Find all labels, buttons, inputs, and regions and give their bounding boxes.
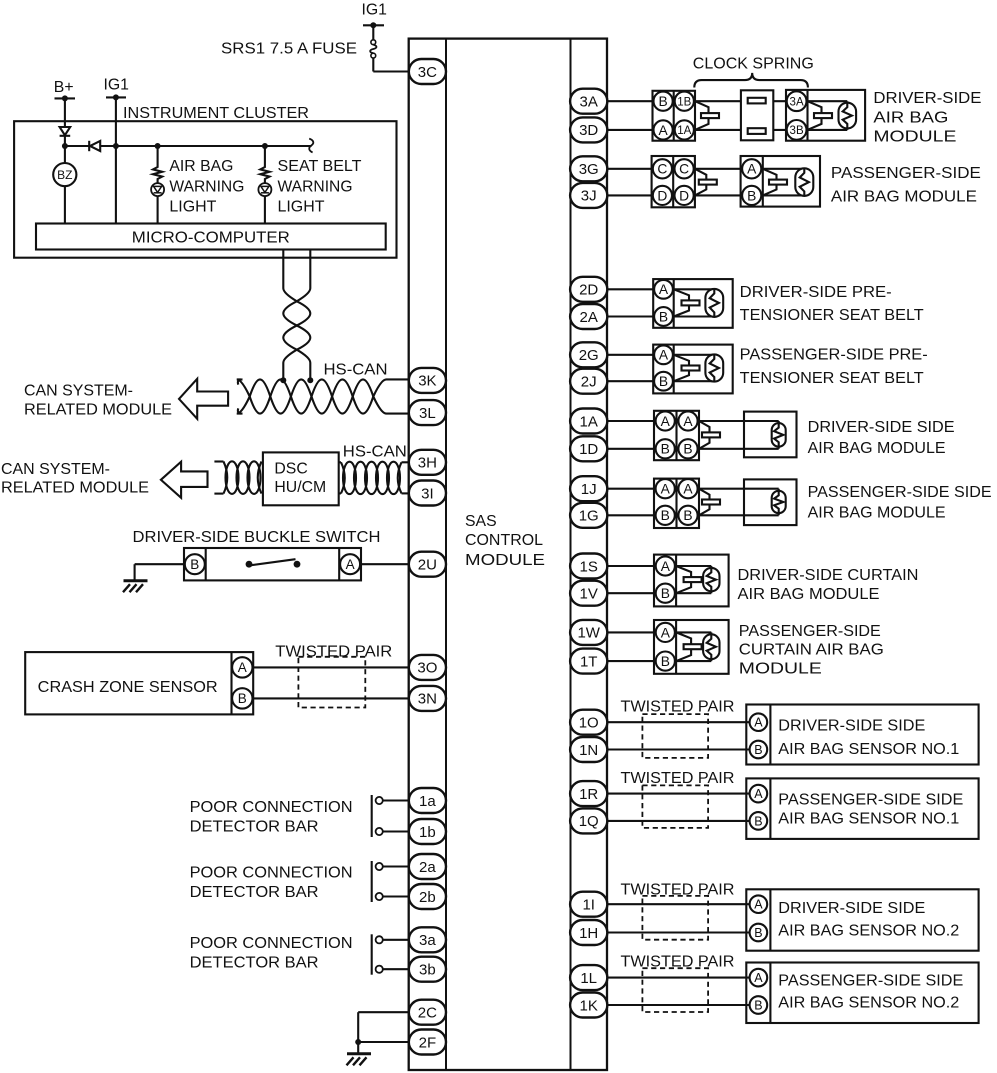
svg-text:1D: 1D xyxy=(579,441,598,458)
svg-text:1B: 1B xyxy=(677,96,691,108)
svg-text:2J: 2J xyxy=(581,374,597,391)
svg-text:CONTROL: CONTROL xyxy=(465,532,543,549)
svg-text:CAN SYSTEM-: CAN SYSTEM- xyxy=(24,382,133,399)
svg-text:B: B xyxy=(659,309,668,324)
svg-text:1T: 1T xyxy=(580,653,598,670)
svg-text:3a: 3a xyxy=(419,932,436,949)
svg-text:1V: 1V xyxy=(580,586,598,603)
svg-text:DETECTOR BAR: DETECTOR BAR xyxy=(190,954,319,971)
svg-text:1R: 1R xyxy=(579,786,598,803)
svg-text:TENSIONER SEAT BELT: TENSIONER SEAT BELT xyxy=(740,307,924,324)
svg-text:C: C xyxy=(657,162,667,177)
svg-text:TWISTED PAIR: TWISTED PAIR xyxy=(621,770,735,787)
svg-text:1G: 1G xyxy=(579,508,599,525)
svg-text:SEAT BELT: SEAT BELT xyxy=(278,158,362,175)
svg-text:TWISTED PAIR: TWISTED PAIR xyxy=(621,954,735,971)
svg-text:WARNING: WARNING xyxy=(169,179,244,196)
svg-text:B: B xyxy=(754,743,762,757)
svg-text:3A: 3A xyxy=(580,94,598,111)
svg-text:1J: 1J xyxy=(581,481,597,498)
svg-text:AIR BAG MODULE: AIR BAG MODULE xyxy=(738,586,880,603)
svg-text:1A: 1A xyxy=(677,125,691,137)
svg-text:A: A xyxy=(683,482,693,497)
svg-text:A: A xyxy=(683,414,693,429)
svg-text:PASSENGER-SIDE SIDE: PASSENGER-SIDE SIDE xyxy=(808,484,992,501)
svg-text:BZ: BZ xyxy=(57,168,72,182)
svg-text:A: A xyxy=(661,414,671,429)
svg-text:MODULE: MODULE xyxy=(465,552,545,569)
svg-text:CLOCK SPRING: CLOCK SPRING xyxy=(693,56,814,73)
svg-text:TENSIONER SEAT BELT: TENSIONER SEAT BELT xyxy=(740,370,924,387)
svg-text:WARNING: WARNING xyxy=(278,179,353,196)
svg-text:HU/CM: HU/CM xyxy=(274,479,326,496)
svg-text:2D: 2D xyxy=(579,282,598,299)
svg-text:PASSENGER-SIDE: PASSENGER-SIDE xyxy=(739,623,881,640)
svg-text:A: A xyxy=(346,557,355,572)
svg-text:1I: 1I xyxy=(582,897,595,914)
svg-text:A: A xyxy=(747,162,757,177)
svg-text:1Q: 1Q xyxy=(579,813,599,830)
svg-text:B: B xyxy=(661,442,670,457)
svg-text:B: B xyxy=(658,94,667,109)
svg-text:CURTAIN AIR BAG: CURTAIN AIR BAG xyxy=(739,642,884,659)
svg-text:TWISTED PAIR: TWISTED PAIR xyxy=(621,699,735,716)
svg-text:RELATED MODULE: RELATED MODULE xyxy=(1,480,149,497)
svg-text:B: B xyxy=(661,654,670,669)
svg-text:1H: 1H xyxy=(579,925,598,942)
svg-text:INSTRUMENT CLUSTER: INSTRUMENT CLUSTER xyxy=(123,105,309,122)
svg-text:1N: 1N xyxy=(579,742,598,759)
svg-text:1S: 1S xyxy=(580,558,598,575)
svg-text:MICRO-COMPUTER: MICRO-COMPUTER xyxy=(132,229,290,246)
svg-text:DRIVER-SIDE CURTAIN: DRIVER-SIDE CURTAIN xyxy=(738,567,919,584)
svg-text:MODULE: MODULE xyxy=(739,661,822,678)
svg-text:POOR CONNECTION: POOR CONNECTION xyxy=(190,935,353,952)
svg-text:A: A xyxy=(754,898,763,912)
svg-text:DRIVER-SIDE SIDE: DRIVER-SIDE SIDE xyxy=(778,718,925,735)
svg-text:D: D xyxy=(657,188,667,203)
svg-text:A: A xyxy=(661,625,671,640)
svg-text:C: C xyxy=(679,162,689,177)
svg-text:1A: 1A xyxy=(580,413,598,430)
svg-text:3D: 3D xyxy=(579,122,598,139)
svg-text:TWISTED PAIR: TWISTED PAIR xyxy=(275,644,392,661)
svg-text:POOR CONNECTION: POOR CONNECTION xyxy=(190,865,353,882)
svg-text:DRIVER-SIDE SIDE: DRIVER-SIDE SIDE xyxy=(778,900,925,917)
svg-text:IG1: IG1 xyxy=(362,2,388,19)
svg-text:MODULE: MODULE xyxy=(873,128,956,145)
svg-text:A: A xyxy=(659,282,669,297)
svg-text:AIR BAG SENSOR NO.1: AIR BAG SENSOR NO.1 xyxy=(778,810,959,827)
svg-text:RELATED MODULE: RELATED MODULE xyxy=(24,402,172,419)
svg-text:B: B xyxy=(754,814,762,828)
svg-text:A: A xyxy=(658,123,668,138)
svg-text:3O: 3O xyxy=(417,660,437,677)
svg-text:DRIVER-SIDE: DRIVER-SIDE xyxy=(873,90,981,107)
svg-text:B: B xyxy=(754,926,762,940)
svg-text:3G: 3G xyxy=(579,161,599,178)
svg-text:2A: 2A xyxy=(580,309,598,326)
svg-text:2b: 2b xyxy=(419,889,436,906)
svg-text:1W: 1W xyxy=(577,625,600,642)
svg-text:B: B xyxy=(683,508,692,523)
svg-text:CRASH ZONE SENSOR: CRASH ZONE SENSOR xyxy=(38,679,218,696)
svg-text:DRIVER-SIDE SIDE: DRIVER-SIDE SIDE xyxy=(808,419,955,436)
svg-text:1O: 1O xyxy=(579,715,599,732)
svg-text:B: B xyxy=(747,188,756,203)
svg-text:A: A xyxy=(659,348,669,363)
svg-text:HS-CAN: HS-CAN xyxy=(343,443,407,460)
svg-text:3I: 3I xyxy=(421,485,434,502)
svg-text:B: B xyxy=(661,586,670,601)
svg-text:B: B xyxy=(661,508,670,523)
svg-text:3K: 3K xyxy=(418,373,436,390)
svg-text:3b: 3b xyxy=(419,962,436,979)
svg-text:PASSENGER-SIDE SIDE: PASSENGER-SIDE SIDE xyxy=(778,791,963,808)
svg-text:A: A xyxy=(238,660,247,675)
svg-text:1a: 1a xyxy=(419,793,436,810)
svg-text:B: B xyxy=(754,998,762,1012)
svg-text:PASSENGER-SIDE SIDE: PASSENGER-SIDE SIDE xyxy=(778,973,963,990)
svg-text:2a: 2a xyxy=(419,859,436,876)
svg-text:B: B xyxy=(190,557,199,572)
svg-text:LIGHT: LIGHT xyxy=(169,199,216,216)
svg-text:1b: 1b xyxy=(419,824,436,841)
svg-text:2G: 2G xyxy=(579,347,599,364)
svg-text:3L: 3L xyxy=(419,405,436,422)
svg-text:AIR BAG MODULE: AIR BAG MODULE xyxy=(808,504,946,521)
svg-text:DETECTOR BAR: DETECTOR BAR xyxy=(190,884,319,901)
svg-text:PASSENGER-SIDE PRE-: PASSENGER-SIDE PRE- xyxy=(740,347,928,364)
svg-text:AIR BAG: AIR BAG xyxy=(169,158,233,175)
svg-text:B: B xyxy=(683,442,692,457)
svg-text:3N: 3N xyxy=(418,691,437,708)
svg-text:POOR CONNECTION: POOR CONNECTION xyxy=(190,799,353,816)
svg-text:B+: B+ xyxy=(54,79,74,96)
svg-text:SRS1 7.5 A FUSE: SRS1 7.5 A FUSE xyxy=(221,40,357,57)
svg-text:1L: 1L xyxy=(580,970,597,987)
svg-text:PASSENGER-SIDE: PASSENGER-SIDE xyxy=(831,165,981,182)
svg-text:2F: 2F xyxy=(419,1034,437,1051)
svg-text:D: D xyxy=(679,188,689,203)
svg-text:3J: 3J xyxy=(581,188,597,205)
svg-text:AIR BAG: AIR BAG xyxy=(873,110,948,127)
svg-text:AIR BAG MODULE: AIR BAG MODULE xyxy=(831,189,977,206)
svg-text:A: A xyxy=(754,716,763,730)
svg-text:AIR BAG SENSOR NO.2: AIR BAG SENSOR NO.2 xyxy=(778,923,959,940)
svg-text:TWISTED PAIR: TWISTED PAIR xyxy=(621,882,735,899)
svg-text:SAS: SAS xyxy=(465,513,497,530)
svg-text:AIR BAG SENSOR NO.1: AIR BAG SENSOR NO.1 xyxy=(778,741,959,758)
svg-text:B: B xyxy=(238,691,247,706)
svg-text:HS-CAN: HS-CAN xyxy=(324,362,388,379)
svg-text:AIR BAG MODULE: AIR BAG MODULE xyxy=(808,440,946,457)
svg-text:2U: 2U xyxy=(418,557,437,574)
svg-text:DRIVER-SIDE PRE-: DRIVER-SIDE PRE- xyxy=(740,284,892,301)
svg-text:A: A xyxy=(661,482,671,497)
svg-text:LIGHT: LIGHT xyxy=(278,199,325,216)
svg-text:DSC: DSC xyxy=(274,460,307,477)
svg-text:A: A xyxy=(754,787,763,801)
svg-text:3H: 3H xyxy=(418,455,437,472)
svg-text:2C: 2C xyxy=(418,1005,437,1022)
svg-text:AIR BAG SENSOR NO.2: AIR BAG SENSOR NO.2 xyxy=(778,995,959,1012)
svg-text:DETECTOR BAR: DETECTOR BAR xyxy=(190,818,319,835)
svg-text:1K: 1K xyxy=(580,997,598,1014)
svg-text:DRIVER-SIDE BUCKLE SWITCH: DRIVER-SIDE BUCKLE SWITCH xyxy=(133,529,381,546)
svg-text:A: A xyxy=(661,559,671,574)
svg-text:3B: 3B xyxy=(790,125,804,137)
svg-text:CAN SYSTEM-: CAN SYSTEM- xyxy=(1,461,110,478)
svg-text:B: B xyxy=(659,374,668,389)
svg-text:A: A xyxy=(754,971,763,985)
svg-text:3C: 3C xyxy=(418,64,437,81)
svg-text:3A: 3A xyxy=(790,96,804,108)
svg-text:IG1: IG1 xyxy=(104,76,130,93)
